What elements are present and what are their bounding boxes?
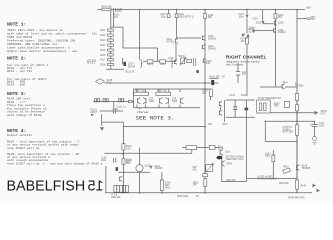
svg-text:Q102: Q102 xyxy=(145,165,151,167)
svg-text:PWR GND: PWR GND xyxy=(177,196,188,198)
svg-text:680: 680 xyxy=(208,17,213,19)
svg-text:BABELFISH: BABELFISH xyxy=(7,178,86,194)
svg-text:10K: 10K xyxy=(208,124,213,126)
svg-text:R149: R149 xyxy=(301,185,307,187)
svg-text:Preferred types: 2SK170BL, LSK: Preferred types: 2SK170BL, LSK170B 2SK xyxy=(7,39,76,43)
svg-text:Lower idea similar accompanime: Lower idea similar accompaniment: u xyxy=(7,46,70,50)
svg-text:10K: 10K xyxy=(126,163,131,165)
svg-text:TIP3055: TIP3055 xyxy=(295,85,304,87)
svg-text:R125: R125 xyxy=(148,64,154,66)
svg-text:100n: 100n xyxy=(101,160,107,162)
svg-text:NOTE 2: NOTE 2 xyxy=(87,63,96,65)
svg-text:R117: R117 xyxy=(100,60,106,62)
svg-text:2N5401: 2N5401 xyxy=(278,32,287,34)
svg-text:220u: 220u xyxy=(265,156,271,158)
svg-text:22K: 22K xyxy=(126,148,131,150)
svg-text:R112: R112 xyxy=(100,35,106,37)
svg-text:PL102 SPEAKER OUT: PL102 SPEAKER OUT xyxy=(258,97,282,100)
svg-text:TR101: TR101 xyxy=(178,56,186,58)
svg-text:0V: 0V xyxy=(196,196,199,198)
svg-text:5W: 5W xyxy=(193,185,197,187)
svg-text:even 6J207 will do: even 6J207 will do xyxy=(7,146,40,150)
svg-text:1085: 1085 xyxy=(172,101,178,103)
svg-text:NOTE1: NOTE1 xyxy=(167,42,175,44)
svg-text:CCS: CCS xyxy=(107,82,112,84)
svg-text:R116: R116 xyxy=(100,55,106,57)
svg-text:OUT: OUT xyxy=(321,113,326,115)
svg-text:with 1 involved: with 1 involved xyxy=(226,62,244,66)
svg-text:+55V: +55V xyxy=(306,8,312,10)
svg-text:R119 100: R119 100 xyxy=(157,91,168,93)
svg-text:(SEE PART LIST): (SEE PART LIST) xyxy=(226,158,244,161)
svg-text:R199 10K: R199 10K xyxy=(102,6,113,8)
svg-text:RIGHT CHANNEL: RIGHT CHANNEL xyxy=(226,55,267,60)
svg-text:with change of R110,: with change of R110, xyxy=(7,113,43,117)
svg-text:10K: 10K xyxy=(241,41,246,43)
svg-text:R111: R111 xyxy=(100,30,106,32)
svg-text:1N4148: 1N4148 xyxy=(155,168,164,170)
svg-text:R118: R118 xyxy=(100,64,106,66)
svg-text:0R22 5W: 0R22 5W xyxy=(279,183,289,185)
svg-text:100n: 100n xyxy=(117,11,123,13)
svg-text:R114 - not fit: R114 - not fit xyxy=(7,69,32,73)
svg-text:SPKR RETURN: SPKR RETURN xyxy=(288,197,305,199)
svg-text:(SEE NOTE 1): (SEE NOTE 1) xyxy=(179,17,194,19)
svg-text:D134: D134 xyxy=(249,27,255,29)
svg-text:R114: R114 xyxy=(100,45,106,47)
svg-text:BIAS: BIAS xyxy=(165,186,171,189)
svg-text:100p: 100p xyxy=(161,17,167,19)
svg-text:C101 1u: C101 1u xyxy=(117,106,126,108)
svg-text:2K2: 2K2 xyxy=(278,17,283,19)
svg-text:0R22: 0R22 xyxy=(283,167,289,169)
svg-text:330: 330 xyxy=(206,63,211,65)
svg-text:1%: 1% xyxy=(222,77,225,79)
svg-text:with idea of level and eq. mat: with idea of level and eq. match consequ… xyxy=(7,32,97,36)
svg-text:C121: C121 xyxy=(230,95,236,97)
svg-text:1085: 1085 xyxy=(149,101,155,103)
svg-text:SEE NOTE 3.: SEE NOTE 3. xyxy=(136,114,175,121)
svg-text:1K: 1K xyxy=(113,111,116,113)
svg-text:R127: R127 xyxy=(160,64,166,66)
svg-text:Q127: Q127 xyxy=(222,124,228,126)
svg-text:D133: D133 xyxy=(256,22,262,24)
svg-text:PSU: PSU xyxy=(310,19,315,21)
svg-text:10K: 10K xyxy=(193,169,198,171)
svg-text:Output mosfets: Output mosfets xyxy=(7,133,32,137)
svg-text:C115: C115 xyxy=(168,58,174,60)
svg-text:47p: 47p xyxy=(242,74,247,76)
svg-text:R147 10R: R147 10R xyxy=(283,132,294,134)
svg-text:2N5401: 2N5401 xyxy=(208,48,217,50)
svg-text:R113: R113 xyxy=(100,40,106,42)
svg-text:15: 15 xyxy=(88,178,104,194)
svg-text:2N5401: 2N5401 xyxy=(208,38,217,40)
svg-text:J7area:: J7area: xyxy=(137,110,150,114)
svg-text:Higher idea smaller accompanim: Higher idea smaller accompaniment - use xyxy=(7,49,77,53)
svg-text:100n: 100n xyxy=(319,125,325,127)
svg-text:NOTE 3:: NOTE 3: xyxy=(7,91,26,97)
svg-text:LINK SEL: LINK SEL xyxy=(111,197,122,199)
svg-text:D136: D136 xyxy=(249,32,255,34)
svg-text:even 6J207 will do :) - has on: even 6J207 will do :) - has one with cha… xyxy=(7,161,103,165)
svg-text:TIP2955: TIP2955 xyxy=(302,168,311,170)
svg-text:Q1xx: Q1xx xyxy=(225,151,231,153)
svg-text:BC546: BC546 xyxy=(128,66,136,68)
svg-text:4K7: 4K7 xyxy=(114,17,119,19)
svg-text:2SK369BL, 2N5 2x5K/1458L etc.: 2SK369BL, 2N5 2x5K/1458L etc. xyxy=(7,42,59,46)
svg-text:TIP41: TIP41 xyxy=(226,164,233,166)
svg-text:R131 330: R131 330 xyxy=(210,77,221,79)
svg-text:TO92 and ROTO3: TO92 and ROTO3 xyxy=(7,35,32,39)
svg-text:Q139: Q139 xyxy=(278,23,284,25)
svg-text:100: 100 xyxy=(202,93,207,95)
svg-text:R123 1K: R123 1K xyxy=(125,71,134,73)
svg-text:C139: C139 xyxy=(252,19,258,21)
svg-text:INPUT: INPUT xyxy=(91,112,98,114)
svg-text:100u: 100u xyxy=(239,17,245,19)
svg-text:JFETs 2101-2104 - any device i: JFETs 2101-2104 - any device in xyxy=(7,28,63,32)
svg-text:R117 100: R117 100 xyxy=(135,91,146,93)
svg-text:R114 - 82R: R114 - 82R xyxy=(7,84,25,87)
svg-text:NOTE 1:: NOTE 1: xyxy=(7,22,26,28)
svg-text:D123: D123 xyxy=(241,95,247,97)
svg-text:0R22 5W: 0R22 5W xyxy=(226,180,236,182)
svg-text:220R: 220R xyxy=(218,149,224,151)
svg-text:0R1: 0R1 xyxy=(274,106,279,108)
svg-text:NOTE 2:: NOTE 2: xyxy=(7,56,26,62)
svg-text:D1xx: D1xx xyxy=(283,82,289,84)
svg-text:R115: R115 xyxy=(100,50,106,52)
svg-text:are 5W wirewound: are 5W wirewound xyxy=(258,178,278,181)
